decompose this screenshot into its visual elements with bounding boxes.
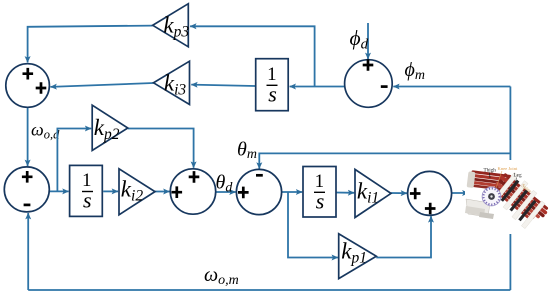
- white strips over bundle: [491, 172, 548, 228]
- svg-text:s: s: [316, 189, 325, 214]
- wire theta_m feedback to S4 top: [259, 153, 510, 168]
- wire phi_m feedback horizontal: [393, 86, 510, 88]
- summer S2: [4, 167, 49, 212]
- wire ki2 output to S3 left: [155, 191, 170, 193]
- svg-text:ωo,m: ωo,m: [204, 264, 239, 288]
- svg-text:ωo,d: ωo,d: [31, 120, 60, 142]
- wire kp3 output to summer S1 top: [28, 26, 153, 63]
- gain kp3 (points left): [153, 4, 190, 47]
- gain kp2 (points right): [92, 105, 128, 150]
- wire phi_d input: [367, 23, 369, 59]
- wire S2 output to integrator U1: [49, 190, 68, 192]
- gain ki3 (points left): [154, 61, 190, 104]
- integrator U1 (1/s): [70, 165, 103, 216]
- gain kp1 (points right): [339, 234, 377, 279]
- lower-left white base bracket: [466, 199, 490, 217]
- wire integrator U2 output to ki3: [191, 85, 255, 86]
- wire tap down to kp1: [288, 192, 338, 258]
- svg-text:s: s: [83, 188, 92, 213]
- summer S0 (phi junction): [345, 59, 393, 107]
- gear wheel: [482, 187, 501, 206]
- wire up into S2 minus: [27, 213, 29, 290]
- summer S1: [6, 64, 50, 108]
- summer S5: [408, 171, 452, 215]
- wire integrator U3 output to ki1: [336, 192, 354, 194]
- gain ki1 (points right): [355, 169, 391, 217]
- integrator U2 (1/s): [256, 59, 289, 111]
- wire bottom feedback omega_o,m: [28, 289, 510, 291]
- svg-text:Thigh: Thigh: [484, 168, 497, 174]
- svg-text:ϕm: ϕm: [405, 59, 425, 83]
- svg-text:θd: θd: [216, 172, 234, 196]
- wire tap up to kp2: [57, 129, 91, 192]
- white backdrop: [465, 160, 549, 235]
- wire kp1 output up to S5 bottom: [376, 216, 431, 257]
- wire S3 output to S4: [216, 191, 236, 193]
- wire integrator U1 output to ki2: [103, 190, 118, 192]
- svg-text:θm: θm: [237, 139, 257, 163]
- svg-text:Leg: Leg: [514, 173, 522, 179]
- wire S4 output to integrator U3: [282, 191, 303, 193]
- wire plant output down right vertical: [509, 222, 511, 291]
- wire S1 output down to S2: [27, 107, 29, 166]
- wire ki1 output to S5 left: [391, 192, 407, 194]
- wire ki3 output to summer S1 right: [51, 83, 154, 87]
- diagonal leg muscle bundle: [490, 171, 550, 226]
- wire right upper vertical: [509, 87, 511, 163]
- gain ki2 (points right): [119, 169, 155, 215]
- wire tap up to kp3: [190, 26, 315, 86]
- svg-text:s: s: [268, 82, 277, 107]
- integrator U3 (1/s): [303, 167, 336, 218]
- summer S4: [236, 169, 281, 214]
- wire S5 output to plant: [452, 192, 469, 194]
- upper thigh muscle bundle: [467, 170, 516, 193]
- wire phi junction output to integrator U2: [290, 86, 345, 88]
- summer S3: [170, 169, 215, 214]
- svg-text:Knee Joint: Knee Joint: [498, 166, 518, 171]
- svg-text:ϕd: ϕd: [350, 26, 369, 53]
- plant image (robotic leg with muscles): [465, 160, 550, 235]
- wire kp2 output to S3 top: [128, 129, 194, 168]
